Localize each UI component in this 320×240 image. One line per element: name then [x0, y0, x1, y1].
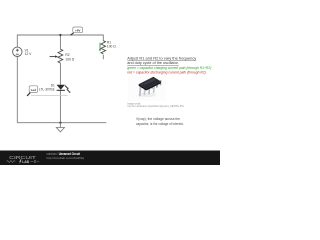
- svg-text:+6V: +6V: [75, 28, 80, 32]
- wire R1 bottom lead: [102, 55, 104, 60]
- label V1 12 V: [25, 48, 33, 56]
- LED D1: [57, 85, 71, 93]
- voltage source V1: [13, 47, 22, 56]
- svg-text:LTL-307EE: LTL-307EE: [39, 88, 55, 92]
- chip top marking: [145, 79, 155, 84]
- svg-text:100 Ω: 100 Ω: [65, 57, 74, 61]
- chip body top face: [139, 77, 161, 89]
- wire bottom horizontal: [17, 122, 106, 124]
- node label +6V: [70, 27, 82, 35]
- wire left branch below V1: [16, 57, 18, 123]
- svg-text:red = capacitor discharging cu: red = capacitor discharging current path…: [127, 71, 206, 75]
- chip top sheen: [141, 78, 156, 86]
- label R2 100 Ohm: [65, 53, 74, 61]
- svg-text:12 V: 12 V: [25, 52, 33, 56]
- footer bar: [0, 151, 220, 166]
- emission arrow 1: [65, 86, 68, 89]
- notch: [141, 84, 143, 86]
- node junction bottom: [59, 122, 61, 124]
- green charging current arrow: [99, 43, 101, 52]
- back row pins: [147, 83, 149, 90]
- svg-text:100 Ω: 100 Ω: [107, 44, 116, 48]
- wire middle branch below D1: [59, 90, 61, 122]
- chip body front face: [146, 81, 161, 90]
- front row pins: [139, 86, 142, 96]
- wire middle branch between R2 and D1: [59, 63, 61, 85]
- annotation box Led: [27, 86, 38, 96]
- svg-text:LAB: LAB: [22, 160, 29, 164]
- potentiometer R2: [50, 49, 63, 63]
- ground: [56, 123, 64, 132]
- svg-text:capacitor, is the voltage of i: capacitor, is the voltage of interest.: [136, 122, 184, 126]
- emission arrow 2: [67, 89, 70, 92]
- node junction top: [59, 34, 61, 36]
- svg-text:Led: Led: [31, 88, 37, 92]
- svg-text:and duty cycle of the oscillat: and duty cycle of the oscillator.: [127, 61, 179, 65]
- footer logo zigzag left: [7, 161, 16, 163]
- shadow: [138, 93, 156, 97]
- chip body side face: [139, 84, 147, 90]
- resistor R1: [101, 41, 106, 54]
- label R1 100 Ohm: [107, 40, 116, 48]
- svg-text:V(cap), the voltage across the: V(cap), the voltage across the: [136, 117, 180, 121]
- svg-text:Adjust R1 and R2 to vary the f: Adjust R1 and R2 to vary the frequency: [127, 56, 196, 60]
- svg-text:Image credit:: Image credit:: [128, 102, 142, 105]
- svg-text:http://en.wikipedia.org/wiki/F: http://en.wikipedia.org/wiki/File:Signet…: [128, 105, 185, 108]
- footer logo bolt: [19, 159, 22, 164]
- footer logo capacitor right: [31, 160, 40, 163]
- svg-text:green = capacitor charging cur: green = capacitor charging current path …: [127, 66, 211, 70]
- label D1 LTL-307EE: [39, 83, 55, 91]
- R2 wiper arrow: [50, 56, 56, 58]
- IC photo 555 timer DIP-8: [128, 75, 166, 101]
- wire top horizontal net +6V: [17, 35, 103, 47]
- faint selection line under LED: [31, 94, 68, 96]
- svg-text:http://circuitlab.com/c/ba369q: http://circuitlab.com/c/ba369q: [47, 156, 85, 160]
- wire middle branch upper: [59, 35, 61, 49]
